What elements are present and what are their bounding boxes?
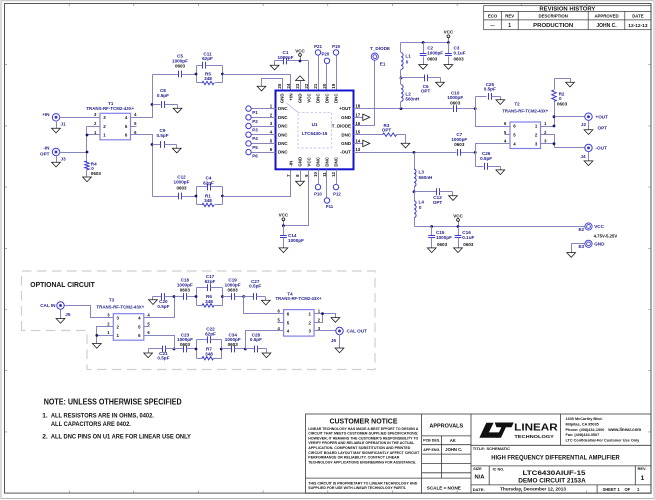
ground at U1 pin 23	[296, 76, 305, 91]
junction R6C17 left	[195, 295, 198, 298]
junction R7C22 right	[220, 348, 223, 351]
svg-text:-OUT: -OUT	[596, 146, 607, 151]
svg-text:22: 22	[304, 83, 309, 88]
svg-text:DNC: DNC	[341, 132, 351, 137]
connector P20	[321, 51, 329, 63]
junction R1C4 right	[221, 195, 224, 198]
resistor R5	[197, 71, 223, 84]
connector J3 (-IN)	[40, 146, 66, 162]
svg-text:HIGH FREQUENCY DIFFERENTIAL AM: HIGH FREQUENCY DIFFERENTIAL AMPLIFIER	[491, 455, 620, 462]
ground at C20	[149, 297, 158, 305]
svg-text:VCC: VCC	[594, 224, 604, 229]
svg-text:10: 10	[313, 171, 318, 176]
svg-text:0603: 0603	[463, 242, 474, 247]
svg-text:REVISION HISTORY: REVISION HISTORY	[539, 6, 595, 12]
svg-text:12-12-13: 12-12-13	[628, 23, 648, 29]
junction C14	[282, 224, 285, 227]
svg-text:TECHNOLOGY: TECHNOLOGY	[514, 434, 554, 439]
junction T3 pin1	[95, 334, 98, 337]
svg-text:GND: GND	[280, 93, 285, 104]
wire E1 to U1 pin 16	[354, 61, 375, 126]
svg-text:SHEET: SHEET	[603, 487, 617, 492]
wire P10 to pin 10	[318, 170, 320, 185]
ground at J4	[584, 152, 593, 166]
svg-text:DNC: DNC	[325, 156, 330, 166]
junction VCC stem	[299, 60, 302, 63]
svg-text:1000pF: 1000pF	[288, 238, 304, 243]
capacitor C13	[415, 188, 453, 205]
svg-text:560nH: 560nH	[405, 97, 420, 102]
svg-text:T_DIODE: T_DIODE	[370, 46, 390, 51]
junction L3 L4	[413, 190, 416, 193]
svg-text:62pF: 62pF	[202, 56, 213, 61]
address block	[566, 417, 642, 443]
ground below R4	[83, 170, 92, 182]
svg-text:DEMO CIRCUIT 2153A: DEMO CIRCUIT 2153A	[518, 478, 586, 485]
junction at T1 pin1	[86, 134, 89, 137]
wire P6 to U1 pin 6	[252, 152, 276, 154]
svg-text:APPROVALS: APPROVALS	[429, 424, 463, 430]
svg-text:CUSTOMER NOTICE: CUSTOMER NOTICE	[330, 416, 398, 425]
svg-text:DNC: DNC	[316, 93, 321, 103]
svg-text:—: —	[490, 23, 495, 28]
svg-text:0.1uF: 0.1uF	[462, 235, 474, 240]
wire C25 vertical to T2 pin 6	[476, 97, 505, 127]
wire node to T1 pins 1-2	[87, 127, 101, 161]
wire J5 to T3 pin 3	[65, 306, 108, 318]
svg-text:14: 14	[355, 138, 360, 143]
svg-text:DNC: DNC	[316, 156, 321, 166]
svg-text:DATE: DATE	[632, 14, 644, 19]
svg-text:0.5pF: 0.5pF	[157, 356, 169, 361]
svg-text:DNC: DNC	[278, 106, 288, 111]
connector J5 (CAL IN)	[40, 302, 71, 317]
junction +OUT	[553, 115, 556, 118]
svg-text:REV.: REV.	[638, 466, 647, 471]
svg-text:T_DIODE: T_DIODE	[332, 124, 351, 129]
svg-text:1: 1	[641, 475, 645, 482]
svg-text:SUPPLIED FOR USE WITH LINEAR T: SUPPLIED FOR USE WITH LINEAR TECHNOLOGY …	[308, 486, 406, 490]
svg-text:VCC: VCC	[307, 156, 312, 166]
svg-text:J4: J4	[580, 154, 586, 159]
svg-text:DNC: DNC	[334, 93, 339, 103]
svg-text:OF: OF	[625, 487, 631, 492]
svg-text:NOTE: UNLESS OTHERWISE SPECIFI: NOTE: UNLESS OTHERWISE SPECIFIED	[44, 398, 182, 407]
capacitor C9	[153, 128, 177, 148]
svg-text:Fax: (408)434-0507: Fax: (408)434-0507	[566, 433, 600, 437]
svg-text:0.5pF: 0.5pF	[480, 156, 492, 161]
svg-text:0.1uF: 0.1uF	[454, 51, 466, 56]
svg-text:18: 18	[355, 104, 360, 109]
connector P5	[246, 141, 258, 150]
capacitor C25	[476, 82, 501, 100]
connector J6 (CAL OUT)	[331, 327, 367, 343]
part number row	[473, 466, 646, 485]
svg-text:J1: J1	[61, 122, 67, 127]
svg-text:L1: L1	[405, 53, 411, 58]
svg-text:1000pF: 1000pF	[427, 51, 443, 56]
capacitor C21	[149, 346, 175, 361]
svg-text:0603: 0603	[91, 171, 102, 176]
offpage arrow at pin 14	[354, 140, 370, 146]
svg-text:0: 0	[419, 205, 422, 210]
svg-text:0.5pF: 0.5pF	[249, 284, 261, 289]
svg-text:560nH: 560nH	[419, 175, 434, 180]
svg-text:+IN: +IN	[42, 112, 50, 117]
junction C21 chain	[173, 348, 176, 351]
svg-text:21: 21	[313, 83, 318, 88]
capacitor C5	[153, 54, 197, 78]
svg-text:P2: P2	[252, 119, 258, 124]
capacitor C23	[175, 332, 197, 352]
junction at J3 line	[86, 151, 89, 154]
offpage arrow at pin 17	[354, 114, 370, 120]
ground at E3	[567, 253, 576, 258]
resistor R1	[197, 193, 223, 206]
wire P12 to pin 12	[336, 170, 338, 185]
junction C8 branch	[151, 103, 154, 106]
ground at C21	[144, 349, 153, 358]
capacitor C28	[246, 332, 267, 352]
svg-text:JOHN C.: JOHN C.	[596, 23, 617, 29]
ground at U1 pin 25	[257, 86, 266, 91]
connector P10	[314, 184, 322, 196]
svg-text:DNC: DNC	[334, 156, 339, 166]
ground at J6	[335, 335, 344, 353]
wire P20 to pin 20	[326, 64, 328, 91]
svg-text:CIRCUIT THAT MEETS CUSTOMER-SU: CIRCUIT THAT MEETS CUSTOMER-SUPPLIED SPE…	[308, 432, 418, 436]
svg-text:GND: GND	[298, 93, 303, 104]
inductor L4	[414, 192, 424, 227]
junction C3 VCC	[447, 41, 450, 44]
svg-text:-IN: -IN	[289, 161, 294, 167]
svg-text:1.: 1.	[42, 413, 48, 420]
svg-text:E2: E2	[578, 227, 584, 232]
svg-text:T2: T2	[514, 101, 520, 106]
svg-text:62pF: 62pF	[205, 331, 216, 336]
svg-text:0.5pF: 0.5pF	[250, 337, 262, 342]
svg-text:DNC: DNC	[278, 124, 288, 129]
connector J2 (+OUT)	[581, 113, 608, 130]
approvals section	[423, 424, 463, 491]
svg-text:4.75V-5.25V: 4.75V-5.25V	[594, 234, 618, 239]
svg-text:0603: 0603	[450, 100, 461, 105]
junction pin3	[553, 142, 556, 145]
svg-text:P6: P6	[252, 154, 258, 159]
capacitor C7	[451, 132, 467, 156]
svg-text:TRANS-RF-TCM2-43X+: TRANS-RF-TCM2-43X+	[96, 305, 144, 310]
svg-text:SCALE = NONE: SCALE = NONE	[427, 486, 461, 491]
svg-text:TRANS-RF-TCM2-43X+: TRANS-RF-TCM2-43X+	[86, 106, 134, 111]
junction C19 chain	[242, 295, 245, 298]
optional circuit dashed boundary	[22, 271, 376, 370]
svg-text:1000pF: 1000pF	[278, 55, 294, 60]
junction L1 L2	[400, 77, 403, 80]
capacitor C34	[222, 332, 246, 352]
svg-text:+IN: +IN	[289, 93, 294, 100]
svg-text:0603: 0603	[557, 101, 568, 106]
ground at C1	[270, 61, 279, 70]
svg-text:HOWEVER, IT REMAINS THE CUSTOM: HOWEVER, IT REMAINS THE CUSTOMER'S RESPO…	[308, 436, 418, 440]
capacitor C26	[476, 151, 501, 170]
svg-text:TRANS-RF-TCM2-43X+: TRANS-RF-TCM2-43X+	[502, 108, 548, 113]
capacitor C10	[447, 90, 463, 112]
connector P4	[246, 132, 258, 141]
svg-text:APPROVED: APPROVED	[594, 14, 618, 19]
wire E3 to ground	[572, 244, 585, 253]
wire T4 pins 1-2 tied	[315, 314, 336, 323]
svg-text:SCHEMATIC: SCHEMATIC	[487, 446, 511, 451]
svg-text:SIZE: SIZE	[473, 467, 482, 471]
svg-text:+OUT: +OUT	[339, 106, 351, 111]
svg-text:LTC Confidential-For Customer: LTC Confidential-For Customer Use Only	[566, 439, 641, 443]
svg-text:23: 23	[295, 83, 300, 88]
svg-text:VCC: VCC	[453, 213, 463, 218]
VCC bottom rail to E2	[415, 226, 585, 228]
svg-text:E3: E3	[578, 244, 584, 249]
wire to U1 pin 22	[308, 61, 310, 91]
Linear Technology logo	[479, 423, 558, 439]
ground at C6	[436, 78, 445, 87]
wire T3 pins 1-2 to ground	[97, 327, 108, 344]
junction C15	[430, 225, 433, 228]
capacitor C20	[153, 293, 175, 309]
svg-text:0603: 0603	[180, 287, 191, 292]
junction R5C11 left	[195, 73, 198, 76]
svg-text:P3: P3	[252, 128, 258, 133]
svg-text:PRODUCTION: PRODUCTION	[533, 23, 573, 29]
svg-text:0603: 0603	[454, 142, 465, 147]
svg-text:P1: P1	[252, 110, 258, 115]
inductor L2	[401, 78, 420, 109]
capacitor C11	[197, 51, 223, 68]
wire U1 pin 13 -OUT	[354, 152, 476, 154]
svg-text:1630 McCarthy Blvd.: 1630 McCarthy Blvd.	[566, 417, 603, 421]
connector P3	[246, 123, 258, 132]
svg-text:P20: P20	[321, 51, 329, 56]
svg-text:0603: 0603	[176, 186, 187, 191]
wire P4 to U1 pin 4	[252, 134, 276, 136]
junction C34 chain	[244, 348, 247, 351]
ground at C8	[173, 105, 182, 113]
junction C20 chain	[173, 295, 176, 298]
junction R6C17 right	[221, 295, 224, 298]
svg-text:1000pF: 1000pF	[436, 235, 452, 240]
svg-text:ALL CAPACITORS ARE 0402.: ALL CAPACITORS ARE 0402.	[51, 421, 131, 428]
svg-text:CAL OUT: CAL OUT	[347, 329, 368, 334]
ground at T4 secondary	[331, 318, 340, 323]
op-amp U1 LTC6430-15	[270, 83, 361, 177]
svg-text:0603: 0603	[175, 64, 186, 69]
svg-text:DATE:: DATE:	[473, 487, 485, 492]
svg-text:P10: P10	[314, 191, 322, 196]
svg-text:0: 0	[406, 59, 409, 64]
wire U1 pin 9 VCC	[284, 170, 309, 226]
svg-text:J3: J3	[61, 156, 67, 161]
svg-text:348: 348	[205, 351, 213, 356]
svg-text:17: 17	[355, 112, 360, 117]
wire T2 pin 1	[547, 126, 555, 128]
connector P6	[246, 149, 258, 158]
resistor R3	[354, 123, 406, 137]
svg-text:PERFORMANCE OR RELIABILITY. C: PERFORMANCE OR RELIABILITY. CONTACT LINE…	[308, 456, 399, 460]
connector P19	[332, 44, 340, 55]
svg-text:P4: P4	[252, 136, 258, 141]
svg-text:JOHN C.: JOHN C.	[445, 447, 462, 452]
svg-text:TITLE:: TITLE:	[473, 446, 485, 451]
wire P21 to pin 21	[318, 56, 320, 91]
svg-text:VCC: VCC	[307, 93, 312, 103]
transformer T4	[276, 291, 322, 336]
svg-text:LTC6430AIUF-15: LTC6430AIUF-15	[523, 471, 587, 477]
svg-text:CIRCUIT BOARD LAYOUT MAY SIGNI: CIRCUIT BOARD LAYOUT MAY SIGNIFICANTLY A…	[308, 451, 420, 455]
ground at C26	[496, 167, 505, 175]
junction R7C22 left	[195, 348, 198, 351]
svg-text:-OUT: -OUT	[340, 150, 351, 155]
connector P11	[324, 198, 334, 209]
wire P19 to pin 19	[336, 56, 338, 91]
transformer T3	[96, 298, 150, 341]
resistor R7	[197, 347, 222, 360]
svg-text:20: 20	[322, 83, 327, 88]
ground at C9	[172, 145, 181, 153]
svg-text:0603: 0603	[180, 342, 191, 347]
svg-text:LINEAR TECHNOLOGY HAS MADE A B: LINEAR TECHNOLOGY HAS MADE A BEST EFFORT…	[308, 427, 418, 431]
ground below C15	[427, 248, 436, 253]
svg-text:19: 19	[331, 83, 336, 88]
svg-text:DNC: DNC	[278, 141, 288, 146]
wire P5 to U1 pin 5	[252, 143, 276, 145]
wire C22 R7 frame	[197, 340, 222, 359]
wire C11 R5 frame	[197, 66, 223, 83]
svg-text:GND: GND	[298, 156, 303, 167]
VCC at C14	[283, 221, 285, 226]
wire to U1 pin 24 (+IN)	[223, 75, 291, 91]
svg-text:DNC: DNC	[278, 115, 288, 120]
capacitor C1	[275, 50, 309, 64]
svg-text:VCC: VCC	[444, 30, 454, 35]
junction R1C4 left	[195, 195, 198, 198]
notes text	[42, 398, 191, 441]
svg-text:OPT: OPT	[40, 152, 50, 157]
svg-text:www.linear.com: www.linear.com	[607, 427, 641, 432]
svg-text:15: 15	[355, 130, 360, 135]
svg-text:348: 348	[204, 76, 212, 81]
svg-text:ALL DNC PINS ON U1 ARE FOR LIN: ALL DNC PINS ON U1 ARE FOR LINEAR USE ON…	[51, 434, 192, 441]
svg-text:IC NO.: IC NO.	[493, 467, 505, 471]
wire T1 pin6 to vertical	[131, 135, 153, 197]
capacitor C18	[175, 278, 197, 300]
svg-text:62pF: 62pF	[205, 279, 216, 284]
junction C16 VCC	[457, 225, 460, 228]
svg-text:348: 348	[205, 299, 213, 304]
svg-text:TECHNOLOGY APPLICATIONS ENGINE: TECHNOLOGY APPLICATIONS ENGINEERING FOR …	[308, 460, 416, 464]
svg-text:LINEAR: LINEAR	[514, 423, 558, 434]
svg-text:P11: P11	[326, 204, 334, 209]
wire chain to T4 pin 4	[246, 331, 278, 349]
svg-text:25: 25	[277, 83, 282, 88]
svg-text:0.5pF: 0.5pF	[156, 133, 168, 138]
svg-text:P19: P19	[332, 44, 340, 49]
svg-text:0603: 0603	[437, 242, 448, 247]
ground above R2	[555, 79, 575, 88]
svg-text:62pF: 62pF	[203, 180, 214, 185]
svg-text:LTC6430-15: LTC6430-15	[302, 131, 328, 136]
svg-text:AK: AK	[450, 438, 456, 443]
ground at C28	[262, 349, 271, 358]
wire T2 pin 4 to C26 vertical	[476, 144, 505, 167]
svg-text:DESCRIPTION: DESCRIPTION	[539, 14, 568, 19]
svg-text:GND: GND	[594, 242, 605, 247]
svg-text:VCC: VCC	[295, 48, 305, 53]
capacitor C17	[197, 274, 223, 291]
ground at J2	[584, 121, 593, 135]
svg-text:Milpitas, CA 95035: Milpitas, CA 95035	[566, 422, 599, 426]
capacitor C12	[153, 175, 197, 200]
ground at C25	[496, 97, 505, 105]
svg-text:J2: J2	[581, 122, 587, 127]
wire J3 to node	[60, 152, 87, 154]
svg-text:REV: REV	[505, 14, 514, 19]
ground at J5	[56, 310, 65, 324]
wire T1 pin4 to vertical	[131, 75, 153, 118]
svg-text:P21: P21	[314, 44, 322, 49]
svg-text:PCB DES.: PCB DES.	[423, 439, 440, 443]
junction C9 branch	[151, 143, 154, 146]
revision history table	[484, 6, 651, 30]
wire T3 pin 6 to bottom chain	[150, 336, 175, 349]
junction L2 at +OUT	[400, 107, 403, 110]
svg-text:P5: P5	[252, 145, 258, 150]
transformer T2	[502, 101, 548, 148]
wire P2 to U1 pin 2	[252, 117, 276, 119]
svg-text:13: 13	[355, 147, 360, 152]
svg-text:CAL IN: CAL IN	[40, 303, 56, 308]
connector P21	[314, 44, 322, 55]
wire P1 to U1 pin 1	[252, 108, 276, 110]
svg-text:OPT: OPT	[421, 89, 431, 94]
capacitor C22	[197, 327, 222, 344]
svg-text:0603: 0603	[427, 56, 438, 61]
svg-text:24: 24	[286, 83, 291, 88]
svg-text:0: 0	[559, 96, 562, 101]
svg-text:0603: 0603	[454, 56, 465, 61]
svg-text:12: 12	[331, 171, 336, 176]
ground below C16	[454, 248, 463, 253]
VCC at U1 pin 22	[300, 57, 302, 61]
connector J1 (+IN)	[42, 112, 66, 126]
capacitor C2	[420, 43, 444, 65]
svg-text:1000pF: 1000pF	[174, 179, 190, 184]
wire T3 pin 4 to top chain	[144, 297, 175, 318]
ground at J1	[52, 121, 61, 134]
connector P12	[333, 184, 341, 196]
svg-text:P12: P12	[333, 191, 341, 196]
ground below C3	[444, 65, 453, 70]
capacitor C8	[153, 88, 178, 108]
svg-text:0.5pF: 0.5pF	[157, 304, 169, 309]
svg-text:J5: J5	[65, 312, 71, 317]
svg-text:ALL RESISTORS ARE IN OHMS, 040: ALL RESISTORS ARE IN OHMS, 0402.	[51, 413, 154, 420]
capacitor C27	[244, 279, 266, 300]
terminal E2 VCC	[578, 223, 617, 239]
transformer T1	[86, 101, 137, 140]
wire J1 to T1 pin 3	[60, 117, 101, 119]
svg-text:N/A: N/A	[475, 475, 486, 481]
svg-text:Thursday, December 12, 2013: Thursday, December 12, 2013	[500, 487, 567, 492]
svg-text:VERIFY PROPER AND RELIABLE OPE: VERIFY PROPER AND RELIABLE OPERATION IN …	[308, 441, 415, 445]
svg-text:0603: 0603	[228, 287, 239, 292]
